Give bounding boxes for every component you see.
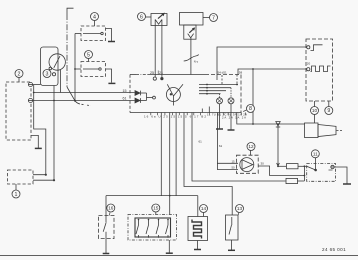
svg-text:N-ɔ: N-ɔ bbox=[194, 60, 199, 64]
svg-text:12: 12 bbox=[248, 144, 254, 149]
svg-text:4: 4 bbox=[93, 14, 96, 20]
svg-text:14: 14 bbox=[201, 206, 207, 211]
svg-text:5: 5 bbox=[87, 52, 90, 58]
svg-text:61: 61 bbox=[199, 140, 203, 144]
svg-text:13: 13 bbox=[237, 206, 243, 211]
svg-text:8: 8 bbox=[249, 106, 252, 112]
svg-text:20: 20 bbox=[307, 61, 311, 65]
svg-text:24 65 001: 24 65 001 bbox=[322, 247, 346, 252]
svg-text:2A 2A 1A 2A: 2A 2A 1A 2A bbox=[222, 116, 246, 120]
svg-text:2: 2 bbox=[18, 71, 21, 77]
svg-text:11: 11 bbox=[313, 152, 318, 157]
svg-text:54 d51: 54 d51 bbox=[218, 71, 228, 75]
svg-text:30: 30 bbox=[261, 162, 265, 166]
svg-text:1: 1 bbox=[15, 192, 18, 198]
svg-text:3: 3 bbox=[46, 71, 49, 77]
svg-text:15: 15 bbox=[123, 89, 127, 93]
svg-text:15: 15 bbox=[232, 159, 236, 163]
svg-text:16 6a U 25 15 15 5 6 17 B2: 16 6a U 25 15 15 5 6 17 B2 bbox=[144, 115, 206, 119]
svg-text:61: 61 bbox=[123, 97, 127, 101]
svg-text:58: 58 bbox=[239, 71, 243, 75]
svg-text:50: 50 bbox=[232, 166, 236, 170]
svg-text:25: 25 bbox=[150, 71, 154, 75]
svg-text:61: 61 bbox=[219, 144, 223, 148]
svg-text:9: 9 bbox=[327, 108, 330, 114]
svg-text:7: 7 bbox=[212, 15, 215, 21]
svg-text:10: 10 bbox=[312, 108, 318, 113]
svg-text:16: 16 bbox=[108, 206, 114, 211]
svg-text:21: 21 bbox=[159, 71, 163, 75]
svg-text:15: 15 bbox=[153, 206, 159, 211]
svg-text:6: 6 bbox=[140, 14, 143, 20]
